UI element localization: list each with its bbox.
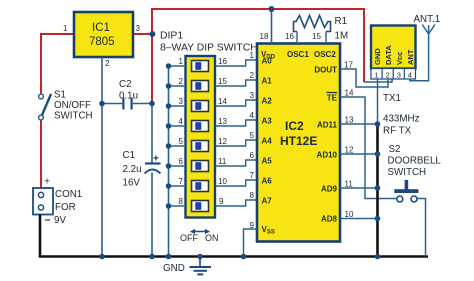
svg-text:6: 6 [179, 157, 184, 166]
svg-text:IC1: IC1 [92, 22, 110, 34]
IC2 pin 18 VDD wire [271, 9, 273, 44]
svg-text:16: 16 [285, 32, 294, 41]
svg-text:12: 12 [218, 137, 227, 146]
svg-text:3: 3 [250, 91, 255, 100]
DIP right pin number labels 16-9 [218, 57, 227, 206]
svg-text:SWITCH: SWITCH [54, 111, 93, 122]
svg-text:7: 7 [179, 177, 184, 186]
svg-text:A6: A6 [262, 177, 273, 186]
pushbutton S2 [394, 180, 418, 202]
svg-text:13: 13 [218, 117, 227, 126]
svg-text:15: 15 [312, 32, 321, 41]
IC2 interior pin names right [314, 66, 337, 224]
junction node: IC1 pin3 / +5V [149, 31, 155, 37]
svg-text:10: 10 [218, 177, 227, 186]
junction nodes: AD lines on ground line [375, 121, 381, 221]
svg-text:S2: S2 [389, 144, 401, 155]
svg-text:4: 4 [179, 117, 184, 126]
DIP element 8 [192, 201, 209, 212]
svg-text:0.1u: 0.1u [119, 91, 138, 102]
capacitor C1 2.2u 16V electrolytic [145, 154, 161, 174]
wire: AD11 pin13 to ground line [340, 123, 378, 125]
svg-text:GND: GND [373, 48, 382, 65]
switch S1 ON/OFF [39, 94, 51, 120]
wire: S2 right to ground bus [417, 199, 425, 257]
wire: blue +5V node down to C1 [151, 104, 153, 164]
ground symbol [190, 257, 212, 275]
svg-text:A5: A5 [262, 157, 273, 166]
svg-text:AD9: AD9 [321, 185, 338, 194]
svg-text:C1: C1 [123, 150, 136, 161]
svg-text:DOUT: DOUT [314, 66, 337, 75]
resistor R1 1M zigzag [294, 16, 331, 32]
wire: C1 minus to ground bus [151, 173, 153, 257]
wire: DIP common ground vertical [168, 66, 170, 257]
wire: TX1 ANT pin4 to antenna [410, 34, 429, 81]
svg-text:–: – [45, 214, 51, 226]
svg-text:S1: S1 [54, 90, 66, 101]
wire: ground heavy line to bus [376, 124, 379, 257]
junction node: VDD tap on +5V rail [269, 6, 275, 12]
svg-text:2: 2 [386, 71, 390, 80]
wire: black CON1 minus to ground bus [40, 215, 428, 257]
junction node: C2 left on gnd line [99, 101, 105, 107]
svg-text:FOR: FOR [55, 202, 76, 213]
svg-text:9V: 9V [54, 215, 66, 226]
svg-text:3: 3 [179, 97, 184, 106]
svg-text:OFF: OFF [180, 233, 198, 243]
wire: TX1 GND pin1 down (blue part) [377, 79, 379, 124]
svg-text:ANT: ANT [406, 49, 415, 65]
svg-text:8–WAY DIP SWITCH: 8–WAY DIP SWITCH [160, 43, 258, 54]
label OFF ON with arrow [180, 229, 219, 243]
svg-text:AD8: AD8 [321, 215, 338, 224]
svg-text:5: 5 [250, 131, 255, 140]
svg-text:3: 3 [397, 71, 401, 80]
svg-text:2: 2 [179, 77, 184, 86]
svg-text:16: 16 [218, 57, 227, 66]
svg-text:AD11: AD11 [317, 121, 338, 130]
TX1 433MHz RF transmitter module [371, 26, 416, 80]
svg-text:A3: A3 [262, 117, 273, 126]
IC2 HT12E encoder body [257, 44, 340, 242]
wire: red S1 bottom to CON1 + [40, 117, 42, 188]
svg-text:A0: A0 [262, 57, 273, 66]
svg-text:DATA: DATA [384, 45, 393, 65]
DIP switch DIP1 body [186, 56, 216, 218]
junction nodes: DIP common ground taps [166, 63, 172, 209]
svg-text:11: 11 [345, 180, 354, 189]
svg-text:AD10: AD10 [317, 151, 338, 160]
svg-text:R1: R1 [335, 16, 348, 27]
DIP element 5 [192, 141, 209, 152]
svg-text:4: 4 [408, 71, 412, 80]
svg-text:16V: 16V [123, 178, 141, 189]
svg-text:TE: TE [327, 94, 338, 103]
svg-text:6: 6 [250, 151, 255, 160]
svg-text:HT12E: HT12E [280, 134, 317, 148]
svg-text:ON: ON [205, 233, 219, 243]
junction nodes: ground bus taps [99, 254, 380, 260]
svg-text:DIP1: DIP1 [160, 31, 183, 42]
svg-text:RF TX: RF TX [383, 126, 412, 137]
IC2 left pin number labels 1-8 [250, 51, 255, 230]
svg-text:9: 9 [219, 197, 224, 206]
svg-text:ANT.1: ANT.1 [414, 14, 441, 25]
svg-text:3: 3 [136, 24, 141, 33]
svg-text:Vcc: Vcc [395, 52, 404, 65]
svg-text:433MHz: 433MHz [383, 114, 420, 125]
svg-text:+: + [153, 154, 159, 165]
svg-text:C2: C2 [119, 79, 132, 90]
svg-text:OSC1: OSC1 [287, 50, 309, 59]
DIP element 2 [192, 81, 209, 92]
svg-text:17: 17 [344, 61, 353, 70]
wire: blue Vcc feed to TX1 pin3 [364, 79, 392, 82]
wire: AD10 pin12 to ground line [340, 153, 378, 155]
DIP element 7 [192, 181, 209, 192]
svg-text:ON/OFF: ON/OFF [54, 100, 91, 111]
svg-text:2: 2 [250, 71, 255, 80]
wire: VSS pin9 to ground bus [244, 229, 258, 257]
wire: AD9 pin11 to ground line [340, 187, 378, 189]
DIP element 4 [192, 121, 209, 132]
svg-text:SWITCH: SWITCH [388, 167, 427, 178]
svg-text:A4: A4 [262, 137, 273, 146]
connector CON1 [33, 188, 53, 215]
DIP left pin number labels [179, 57, 184, 206]
svg-text:7: 7 [250, 171, 255, 180]
svg-text:DOORBELL: DOORBELL [388, 156, 442, 167]
DIP right step wires to IC2 A0-A7 [215, 60, 257, 206]
svg-text:1: 1 [375, 71, 379, 80]
DIP element 3 [192, 101, 209, 112]
svg-text:14: 14 [218, 97, 227, 106]
svg-text:1: 1 [250, 51, 255, 60]
svg-text:IC2: IC2 [285, 119, 304, 133]
svg-text:5: 5 [179, 137, 184, 146]
svg-text:18: 18 [260, 32, 269, 41]
DIP element 6 [192, 161, 209, 172]
svg-text:A7: A7 [262, 197, 273, 206]
svg-text:1M: 1M [335, 31, 349, 42]
svg-text:14: 14 [345, 89, 354, 98]
svg-text:8: 8 [179, 197, 184, 206]
svg-text:13: 13 [345, 116, 354, 125]
svg-text:OSC2: OSC2 [314, 50, 336, 59]
IC2 pin 15 stub [325, 32, 327, 44]
capacitor C2 0.1u [102, 98, 152, 110]
svg-text:7805: 7805 [89, 36, 115, 48]
svg-text:CON1: CON1 [55, 189, 82, 200]
antenna ANT.1 [422, 25, 435, 35]
svg-text:+: + [44, 176, 50, 188]
DIP element 1 [192, 61, 209, 72]
svg-text:8: 8 [250, 191, 255, 200]
svg-text:4: 4 [250, 111, 255, 120]
svg-text:1: 1 [179, 57, 184, 66]
wire: red +9V from S1 up to IC1 pin1 [41, 34, 74, 97]
svg-text:GND: GND [163, 263, 185, 274]
wire: AD8 pin10 to ground line [340, 218, 378, 220]
junction node: C2 right on +5V line [149, 101, 155, 107]
IC1 7805 regulator U-box [74, 12, 133, 57]
svg-text:10: 10 [345, 210, 354, 219]
svg-text:TX1: TX1 [383, 93, 401, 104]
svg-text:11: 11 [218, 157, 227, 166]
IC2 pin 16 stub [296, 32, 298, 44]
svg-text:A2: A2 [262, 97, 273, 106]
svg-text:15: 15 [218, 77, 227, 86]
wire: red IC1 pin3 stub to node [133, 33, 153, 35]
wire: DOUT pin17 to TX1 DATA [340, 69, 388, 87]
DIP left pin stubs 1-8 [169, 66, 186, 206]
svg-text:2: 2 [105, 59, 110, 68]
TE overline [327, 92, 338, 94]
svg-text:2.2u: 2.2u [123, 164, 142, 175]
svg-text:A1: A1 [262, 77, 273, 86]
svg-text:1: 1 [63, 24, 68, 33]
wire: red +5V rail top [152, 9, 364, 103]
wire: blue IC1 pin2 down to ground bus [101, 57, 103, 257]
svg-text:12: 12 [345, 146, 354, 155]
wire: TE pin14 down to S2 [340, 97, 397, 199]
